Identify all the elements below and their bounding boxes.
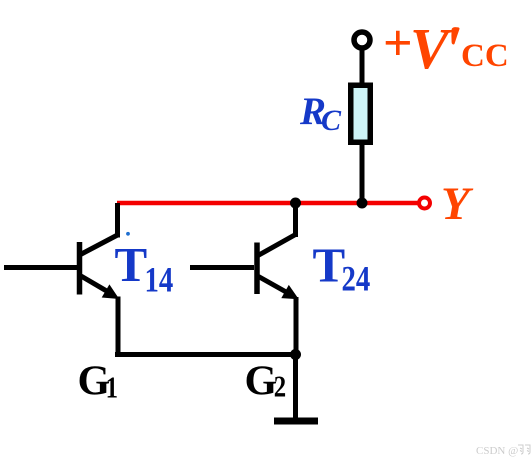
svg-text:1: 1 xyxy=(106,371,118,405)
svg-text:14: 14 xyxy=(145,261,174,301)
node junction RC bottom xyxy=(357,198,368,209)
wire emitter bus xyxy=(115,352,296,357)
wire red collector bus xyxy=(117,201,419,205)
wire to ground xyxy=(293,355,298,421)
wire resistor to bus node xyxy=(360,144,365,203)
wire T14 emitter down xyxy=(116,297,121,356)
stray dot xyxy=(126,232,130,236)
ground xyxy=(274,418,318,425)
wire T24 collector up to bus xyxy=(293,203,298,237)
svg-text:CSDN @: CSDN @ xyxy=(476,445,518,457)
svg-text:C: C xyxy=(321,104,342,137)
wire terminal to resistor xyxy=(360,48,365,85)
label RC xyxy=(299,90,342,137)
wire T14 base lead xyxy=(4,265,77,270)
transistor T24 xyxy=(257,235,299,300)
svg-text:24: 24 xyxy=(342,260,371,300)
wire T24 emitter down xyxy=(294,297,299,355)
node junction G2 xyxy=(290,349,301,360)
label G1 xyxy=(78,359,118,406)
terminal Y xyxy=(419,198,430,209)
node junction T24 collector xyxy=(290,198,301,209)
terminal +V'CC xyxy=(354,32,370,48)
label T14 xyxy=(115,237,174,300)
wire T14 collector up to bus xyxy=(115,203,120,238)
svg-text:CC: CC xyxy=(461,38,509,74)
label T24 xyxy=(313,238,371,300)
svg-text:Y: Y xyxy=(441,178,474,230)
transistor T14 xyxy=(80,235,120,299)
svg-text:T: T xyxy=(115,237,148,292)
resistor RC xyxy=(351,85,371,142)
svg-text:V: V xyxy=(410,16,453,81)
svg-text:2: 2 xyxy=(274,370,286,404)
wire T24 base lead xyxy=(190,265,254,270)
svg-text:G: G xyxy=(245,359,278,405)
svg-text:+: + xyxy=(383,15,413,72)
label G2 xyxy=(245,359,287,405)
svg-text:T: T xyxy=(313,238,346,293)
label +V'CC xyxy=(383,15,509,81)
